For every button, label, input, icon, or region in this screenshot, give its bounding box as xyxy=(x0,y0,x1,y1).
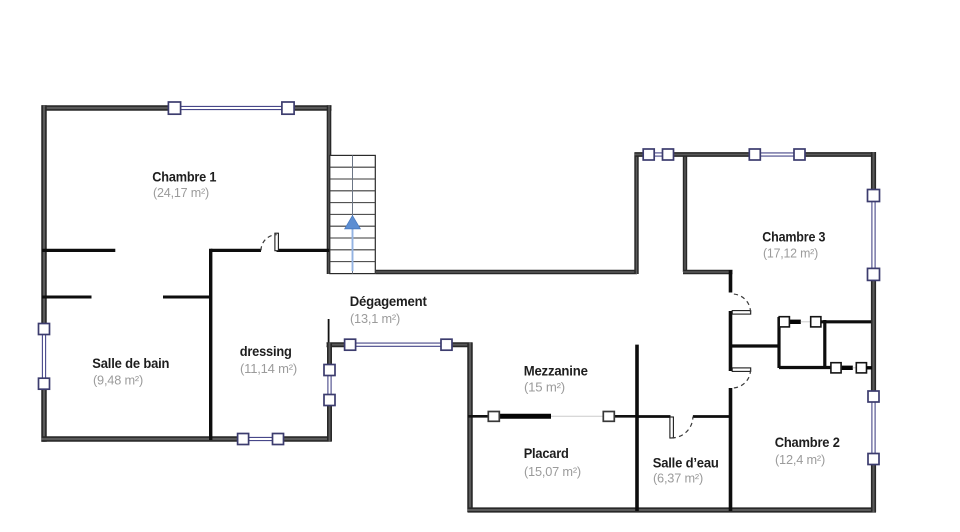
window: bottom-left xyxy=(238,434,284,445)
svg-text:Chambre 3: Chambre 3 xyxy=(762,228,825,244)
closet B: top edge (y=321.8) xyxy=(821,320,871,323)
label: Mezzanine xyxy=(524,363,588,395)
wall: bottom-left exterior xyxy=(42,436,332,442)
window: chambre3 top large xyxy=(749,149,805,160)
svg-text:Placard: Placard xyxy=(524,445,569,461)
wall: chambre1 top exterior xyxy=(42,105,332,111)
label: Chambre 3 xyxy=(762,228,825,260)
wall: right-section west (x=636.5) xyxy=(634,153,638,275)
closet B: sliding bottom - panel xyxy=(842,366,853,370)
svg-text:Salle d’eau: Salle d’eau xyxy=(653,455,719,471)
svg-text:(24,17 m²): (24,17 m²) xyxy=(153,185,209,200)
svg-text:(13,1 m²): (13,1 m²) xyxy=(350,311,400,326)
label: Placard xyxy=(524,445,581,479)
door: salle d'eau leaf xyxy=(670,417,674,438)
wall: mezzanine east / salle d'eau west (x=637) xyxy=(635,345,639,511)
wall: mezzanine west exterior (x=470) xyxy=(467,343,473,513)
label: Chambre 1 xyxy=(152,168,216,199)
wall: degagement south of stair (y=272) xyxy=(376,270,637,274)
wall: salle d'eau top (y=416.5) xyxy=(637,415,671,418)
svg-text:Chambre 2: Chambre 2 xyxy=(775,434,840,450)
svg-text:Chambre 1: Chambre 1 xyxy=(152,168,216,184)
wall: passage east (x=685) xyxy=(683,153,687,273)
label: Salle de bain xyxy=(92,355,169,387)
wall: chambre1 bottom interior (y=250) xyxy=(42,249,115,252)
window: corridor south xyxy=(345,339,452,350)
svg-text:(6,37 m²): (6,37 m²) xyxy=(653,471,703,486)
window: chambre3 top small xyxy=(643,149,673,160)
svg-text:(9,48 m²): (9,48 m²) xyxy=(93,372,143,387)
stair arrow head xyxy=(345,216,361,229)
wall: mezzanine/placard divider (y=416.3) xyxy=(468,415,489,418)
window: salle de bain left xyxy=(39,324,50,390)
svg-text:Mezzanine: Mezzanine xyxy=(524,363,588,379)
wall: salle de bain stub east (y=297) xyxy=(163,296,212,299)
closet: bottom edge (y=367.5) xyxy=(779,366,831,369)
svg-text:dressing: dressing xyxy=(240,343,292,359)
stair treads xyxy=(330,167,376,261)
stair arrow shaft xyxy=(352,228,354,272)
closet B: sliding bottom - boxes xyxy=(831,363,841,373)
wall: bottom exterior (y=510) xyxy=(468,507,877,512)
door: chambre2 leaf xyxy=(732,368,751,372)
svg-text:(17,12 m²): (17,12 m²) xyxy=(763,245,818,260)
closet B: sliding bottom - faint guide xyxy=(853,367,857,369)
label: Salle d'eau xyxy=(653,455,719,486)
label: Chambre 2 xyxy=(775,434,840,467)
wall: left exterior xyxy=(41,105,47,442)
wall: salle de bain stub west (y=297) xyxy=(42,296,92,299)
closet A: west wall xyxy=(777,317,780,368)
wall: salle de bain / dressing divider (x=211) xyxy=(209,249,212,440)
wall: chambre2/3 doors wall (x=730.5) xyxy=(729,270,733,293)
closet: middle wall (x=825) xyxy=(823,320,826,368)
label: Dégagement xyxy=(350,293,427,326)
window: chambre1 top xyxy=(168,102,294,114)
window: dressing east xyxy=(324,365,335,406)
svg-text:(15,07 m²): (15,07 m²) xyxy=(524,464,581,479)
svg-text:(12,4 m²): (12,4 m²) xyxy=(775,452,825,467)
wall: dressing east exterior (x=329.5) xyxy=(327,343,332,442)
door: chambre3 swing arc xyxy=(732,294,750,312)
wall: right-section top exterior (y=154.5) xyxy=(635,152,877,157)
wall: chambre1 right / stair west exterior xyxy=(327,105,332,274)
wall: thin stub above corridor window (x=328.5) xyxy=(328,319,330,344)
sliding door: mezzanine/placard faint guide xyxy=(550,415,604,417)
svg-text:Salle de bain: Salle de bain xyxy=(92,355,169,371)
wall: closet link (y=346) xyxy=(731,344,780,347)
closet A: sliding top - boxes xyxy=(779,317,789,327)
door: salle d'eau swing arc xyxy=(672,417,693,438)
closet A: sliding top - faint guide xyxy=(801,321,811,323)
window: chambre2 right xyxy=(868,391,879,465)
svg-text:Dégagement: Dégagement xyxy=(350,293,427,309)
closet A: sliding top - panel xyxy=(789,320,800,324)
window: chambre3 right xyxy=(868,190,880,281)
svg-text:(11,14 m²): (11,14 m²) xyxy=(240,361,297,376)
door: chambre1/dressing leaf xyxy=(275,233,279,251)
sliding door: mezzanine/placard panel xyxy=(499,414,551,419)
wall: right exterior (x=873.5) xyxy=(871,152,876,512)
sliding door: mezzanine/placard boxes xyxy=(488,412,499,422)
wall: chambre3 south-west (y=272) xyxy=(683,270,733,274)
closet B: tick to right wall xyxy=(867,366,873,369)
label: dressing xyxy=(240,343,297,376)
wall: dressing top interior xyxy=(211,249,261,252)
door: chambre1/dressing swing arc xyxy=(261,235,277,251)
stair center line xyxy=(352,155,354,273)
door: chambre2 swing arc xyxy=(732,370,750,388)
door: chambre3 leaf xyxy=(732,311,751,315)
wall: corridor south window wall (y=344.7) xyxy=(327,342,473,347)
svg-text:(15 m²): (15 m²) xyxy=(524,380,565,395)
stair: outline xyxy=(330,155,376,273)
